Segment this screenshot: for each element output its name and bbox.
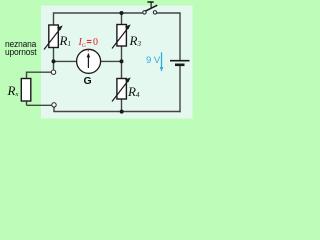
resistor R1 body — [49, 25, 59, 48]
label 9 V (blue) — [146, 55, 160, 66]
resistor R4 body — [117, 79, 127, 100]
junction dot node top (R3 top) — [120, 11, 124, 15]
terminal lower — [52, 103, 56, 107]
wire: bottom horizontal — [53, 111, 180, 113]
resistor R3 arrow — [112, 24, 131, 48]
switch lever — [145, 5, 157, 11]
label IG=0 equals sign — [87, 40, 92, 42]
label R4 — [128, 84, 139, 100]
wire: Rx top horizontal — [27, 71, 52, 73]
label Rx — [8, 83, 19, 99]
galvanometer needle — [87, 53, 91, 68]
wire: left vertical (R1 to terminal) — [53, 47, 55, 70]
wire: R4 bottom lead — [121, 99, 123, 112]
junction dot node A (left mid) — [52, 59, 56, 63]
resistor Rx body — [21, 79, 31, 102]
label G — [84, 75, 92, 87]
label R3 — [130, 33, 141, 49]
junction dot node B (right mid) — [120, 59, 124, 63]
9V arrow — [160, 52, 164, 72]
junction dot node bottom (R4 bottom) — [120, 110, 124, 114]
wire: left vertical upper (top corner to R1) — [53, 12, 55, 25]
wire: top from left corner to switch — [54, 12, 143, 14]
panel background — [41, 6, 193, 119]
wire: Rx top vertical lead — [26, 72, 28, 79]
wire: stub terminal to bottom wire — [53, 107, 55, 112]
resistor R4 arrow — [112, 77, 131, 101]
galvanometer red zero tick — [87, 49, 89, 51]
label IG = 0 (red) — [79, 37, 86, 49]
wire: Rx bottom horizontal — [27, 104, 53, 106]
wire: R4 top lead — [121, 61, 123, 78]
battery long plate — [170, 60, 190, 62]
wire: top from switch to right corner — [157, 12, 181, 14]
terminal upper — [51, 70, 55, 74]
galvanometer G body — [77, 49, 101, 73]
switch handle bar — [147, 1, 153, 3]
wire: right vertical below battery — [179, 66, 181, 113]
label: neznana upornost — [5, 41, 36, 56]
wire: Rx bottom vertical lead — [26, 101, 28, 105]
wire: galvanometer right branch — [100, 60, 121, 62]
switch handle stem — [150, 2, 152, 8]
resistor R3 body — [117, 25, 127, 47]
switch terminal left — [143, 11, 146, 14]
battery short plate — [175, 64, 185, 67]
wire: right vertical above battery — [179, 13, 181, 60]
wire: R3 top lead — [121, 13, 123, 25]
wire: galvanometer left branch — [54, 60, 78, 62]
label R1 — [60, 33, 71, 49]
resistor R1 arrow — [44, 25, 63, 49]
wire: R3 bottom lead to node — [121, 46, 123, 61]
switch terminal right — [153, 11, 156, 14]
